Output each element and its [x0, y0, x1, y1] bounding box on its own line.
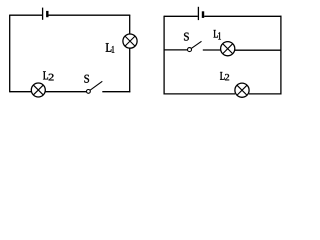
wire: left circuit bottom edge, lamp L2 to switch S	[45, 91, 87, 93]
battery (right circuit) long thin plate	[197, 7, 199, 20]
battery (left circuit) long thin plate	[42, 8, 44, 20]
wire: right circuit middle rail, switch S to lamp L1	[203, 49, 221, 51]
label S (right circuit)	[184, 33, 189, 41]
battery (left circuit) short thick plate	[46, 11, 48, 17]
switch S (right circuit) contact circle	[188, 48, 192, 52]
wire: right circuit top edge, right of battery	[204, 15, 281, 17]
label L2 (left circuit)	[43, 71, 48, 79]
wire: left circuit right edge, corner to lamp L1	[129, 15, 131, 34]
wire: right circuit bottom edge, corner to lamp L2	[164, 93, 235, 95]
wire: left circuit top edge, right of battery	[49, 14, 131, 16]
label L1 (left circuit)	[106, 43, 112, 52]
battery (right circuit) short thick plate	[202, 11, 204, 18]
lamp L2 (right circuit) bulb circle	[235, 83, 249, 97]
wire: right circuit left edge	[163, 16, 165, 95]
switch S (right circuit) blade	[191, 41, 201, 48]
lamp L2 (right circuit) cross	[237, 85, 247, 95]
wire: left circuit left edge	[9, 15, 11, 93]
label L1 (right circuit)	[214, 30, 218, 38]
wire: right circuit bottom edge, lamp L2 to corner	[249, 93, 282, 95]
lamp L1 (right circuit) cross	[223, 44, 233, 54]
wire: right circuit right edge	[280, 16, 282, 95]
wire: left circuit bottom edge, switch S to corner	[102, 91, 130, 93]
switch S (left circuit) blade	[90, 81, 102, 90]
wire: left circuit bottom edge, corner to lamp L2	[10, 91, 32, 93]
lamp L2 (left circuit) bulb circle	[31, 83, 45, 97]
label S (left circuit)	[84, 75, 89, 83]
lamp L1 (right circuit) bulb circle	[221, 42, 235, 56]
wire: right circuit top edge, left of battery	[164, 15, 198, 17]
switch S (left circuit) contact circle	[87, 90, 91, 94]
lamp L1 (left circuit) cross	[125, 36, 135, 46]
wire: right circuit middle rail, left edge to switch S	[164, 49, 188, 51]
label L2 (right circuit)	[220, 72, 225, 80]
wire: left circuit right edge, lamp L1 to corner	[129, 48, 131, 92]
lamp L1 (left circuit) bulb circle	[123, 34, 137, 48]
lamp L2 (left circuit) cross	[33, 85, 43, 95]
wire: left circuit top edge, left of battery	[10, 14, 42, 16]
wire: right circuit middle rail, lamp L1 to right edge	[235, 49, 281, 51]
